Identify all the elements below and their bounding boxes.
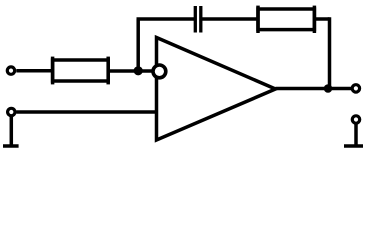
resistor R1 (input resistor) — [53, 57, 109, 85]
wire node A up to feedback branch — [136, 19, 140, 71]
wire R1 to op-amp inverting input — [108, 69, 153, 73]
non-inverting input terminal — [8, 108, 15, 115]
output terminal — [352, 85, 359, 92]
resistor R2 (feedback resistor) — [258, 6, 314, 33]
node A (summing junction dot) — [134, 66, 143, 75]
wire op-amp output to output terminal — [276, 87, 352, 91]
wire down from feedback to output node — [328, 17, 332, 88]
ground (right) — [344, 144, 363, 148]
wire input terminal to R1 — [16, 69, 54, 73]
reference terminal (bottom right) — [352, 116, 359, 123]
inverting input bubble on U1 — [153, 65, 166, 78]
wire capacitor to R2 — [201, 17, 258, 21]
wire reference terminal to ground — [354, 124, 358, 146]
wire non-inverting terminal to op-amp — [16, 110, 156, 114]
wire R2 to right corner — [314, 17, 329, 21]
ground (left) — [3, 144, 19, 148]
input terminal (inverting input source) — [7, 67, 14, 74]
wire feedback top left to capacitor — [137, 17, 196, 21]
node B (output junction dot) — [324, 84, 333, 93]
op-amp U1 — [157, 38, 276, 141]
wire non-inverting terminal to ground — [10, 116, 14, 146]
capacitor C1 (feedback capacitor) — [195, 6, 201, 33]
